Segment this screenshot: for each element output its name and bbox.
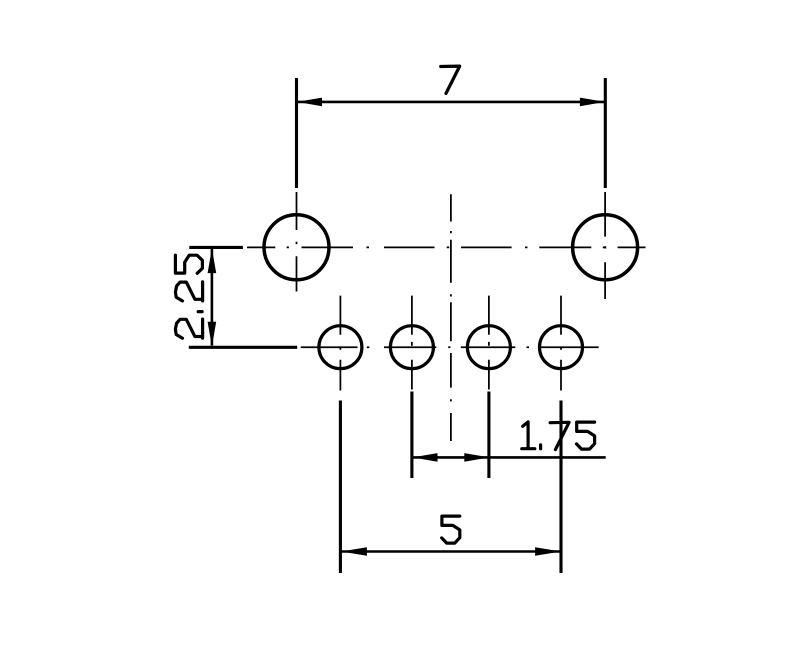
extension line dim7 right bbox=[604, 78, 607, 188]
dimension line 7 bbox=[298, 101, 604, 104]
dimension line 5 bbox=[341, 550, 561, 553]
extension line dim2.25 bottom bbox=[189, 346, 297, 349]
pin P3 (small circle 3) bbox=[467, 326, 510, 369]
center line horizontal bottom row bbox=[301, 346, 599, 348]
dimension line 1.75 bbox=[413, 456, 606, 459]
extension line dim2.25 top bbox=[189, 246, 243, 249]
pin P2 (small circle 2) bbox=[390, 326, 433, 369]
center line horizontal top row bbox=[247, 246, 646, 248]
pin P4 (small circle 4) bbox=[540, 326, 583, 369]
label 1.75 bbox=[522, 422, 535, 449]
extension line dim1.75 left (below pin P2) bbox=[410, 392, 413, 479]
center line vertical pin P4 bbox=[560, 296, 562, 391]
pin P1 (small circle 1) bbox=[319, 326, 362, 369]
center line vertical hole H2 bbox=[604, 192, 606, 299]
arrowhead dim5 left bbox=[341, 547, 367, 556]
extension line dim7 left bbox=[295, 78, 298, 188]
center line vertical pin P3 bbox=[488, 296, 490, 390]
center line vertical main axis bbox=[450, 194, 452, 441]
extension line dim5 right (below pin P4) bbox=[559, 401, 562, 574]
label 7 bbox=[441, 66, 460, 93]
arrowhead dim7 left bbox=[297, 98, 322, 107]
center line vertical pin P2 bbox=[411, 296, 413, 390]
arrowhead dim1.75 right bbox=[464, 453, 489, 462]
center line vertical hole H1 bbox=[296, 192, 298, 292]
center line vertical pin P1 bbox=[339, 296, 341, 391]
arrowhead dim2.25 up bbox=[208, 248, 217, 273]
dimension line 2.25 bbox=[211, 249, 214, 346]
arrowhead dim1.75 left bbox=[413, 453, 438, 462]
arrowhead dim5 right bbox=[535, 547, 561, 556]
label 5 bbox=[442, 516, 460, 543]
hole H1 (large circle left) bbox=[264, 215, 329, 280]
hole H2 (large circle right) bbox=[573, 215, 638, 280]
arrowhead dim2.25 down bbox=[208, 322, 217, 347]
label 2.25 (rotated) bbox=[175, 255, 202, 338]
extension line dim5 left (below pin P1) bbox=[339, 401, 342, 574]
extension line dim1.75 right (below pin P3) bbox=[487, 392, 490, 479]
arrowhead dim7 right bbox=[580, 98, 605, 107]
